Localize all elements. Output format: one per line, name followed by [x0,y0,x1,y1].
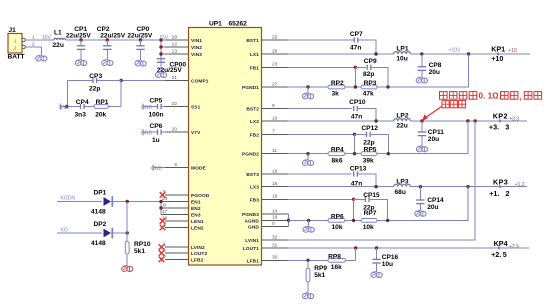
svg-text:CP12: CP12 [361,125,378,132]
svg-text:+3.: +3. [489,122,499,131]
inductor LP3 [394,184,411,186]
svg-text:EN3: EN3 [191,213,201,219]
wire CP3 loop [68,81,94,107]
svg-text:+10: +10 [508,48,517,54]
inductor L1 [54,38,66,40]
svg-text:AGND: AGND [244,218,259,224]
junction [374,52,377,55]
capacitor CP8 [421,54,423,67]
svg-text:0. 1: 0. 1 [479,91,493,100]
no-connect X LEN1 [160,218,166,224]
wire diode node vertical [126,202,128,242]
svg-text:21: 21 [172,75,178,81]
svg-text:31: 31 [272,242,278,248]
wire +10 rail [410,53,530,55]
junction [354,246,357,249]
wire FB1 return [388,54,469,87]
capacitor CP16 [376,248,378,259]
no-connect X LFB2 [159,257,165,263]
svg-text:22u: 22u [53,42,64,49]
junction [307,219,310,222]
svg-text:8: 8 [163,202,166,208]
junction [287,219,290,222]
svg-text:LEN2: LEN2 [191,226,204,232]
capacitor CP10 [353,106,355,111]
svg-text:16k: 16k [331,264,342,271]
svg-text:DP2: DP2 [94,221,107,228]
wire PGND3 row [289,219,329,221]
svg-text:5k1: 5k1 [134,248,145,255]
wire CP13 to LX3 node [357,174,376,187]
svg-text:22: 22 [172,101,178,107]
svg-text:FB2: FB2 [250,132,260,138]
svg-text:10u: 10u [382,261,393,268]
svg-text:22u/25V: 22u/25V [100,33,126,40]
junction [420,119,423,122]
junction [159,52,162,55]
svg-text:RP3: RP3 [364,80,377,87]
svg-text:19: 19 [272,215,278,221]
ground at CP11 [416,147,421,152]
svg-text:CP6: CP6 [150,123,163,130]
capacitor CP15 [354,198,366,200]
ground at CP1 [75,61,80,66]
IC UP1 65262 body [189,28,262,266]
svg-text:47k: 47k [363,91,374,98]
wire LFB1 row [288,259,329,261]
svg-text:12: 12 [172,41,178,47]
wire EN vertical [160,202,162,215]
svg-text:+1.2: +1.2 [515,182,525,188]
capacitor CP00 [157,58,165,60]
no-connect X LEN2 [160,225,166,231]
svg-text:3k: 3k [332,91,340,98]
svg-text:47n: 47n [351,113,362,120]
wire BST1 to CP7 [288,39,355,41]
wire [153,167,165,169]
svg-text:20u: 20u [429,69,440,76]
svg-text:1u: 1u [152,137,160,144]
junction [352,219,355,222]
svg-text:+10: +10 [491,54,503,63]
svg-text:39k: 39k [363,157,374,164]
svg-text:11: 11 [272,148,277,154]
svg-text:LP1: LP1 [396,46,408,53]
svg-text:15V: 15V [42,35,52,41]
wire L1 to VIN1 [66,39,166,41]
IC left pin stubs with pin numbers [165,39,189,41]
svg-text:FB1: FB1 [250,65,260,71]
svg-text:EN1: EN1 [191,200,201,206]
svg-text:20k: 20k [95,112,106,119]
capacitor CP3 [92,78,94,83]
ground at RP9 [302,294,307,299]
wire J1 pin2 down to ground [25,47,41,55]
junction [474,119,477,122]
svg-text:27: 27 [272,81,278,87]
svg-text:23: 23 [272,62,278,68]
svg-text:COMP1: COMP1 [191,79,209,85]
svg-text:UP1: UP1 [209,21,222,28]
svg-text:68u: 68u [395,189,406,196]
wire LVIN1 from +3.3 [288,121,476,240]
svg-text:LFB1: LFB1 [247,258,260,264]
ground at CP14 [415,211,420,216]
wire KGDN to DP1 [57,201,102,203]
svg-text:22u/25V: 22u/25V [66,33,92,40]
svg-text:DP1: DP1 [94,189,107,196]
svg-text:GND: GND [248,225,259,231]
svg-text:RP1: RP1 [96,99,109,106]
svg-text:PGND1: PGND1 [242,85,259,91]
ground at CP16 [371,273,376,278]
svg-text:KP2: KP2 [493,112,508,121]
junction [419,185,422,188]
connector J1 (BATT) [8,34,22,54]
svg-text:15: 15 [272,181,278,187]
svg-text:CP11: CP11 [428,129,444,136]
IC right pin stubs with pin numbers [262,39,288,41]
svg-text:CP9: CP9 [364,58,377,65]
svg-text:+2.5: +2.5 [509,244,519,250]
junction [374,119,377,122]
ground at CP00 [155,73,160,78]
capacitor CP5 [157,104,159,109]
svg-text:RP5: RP5 [364,147,377,154]
svg-text:RP4: RP4 [331,147,344,154]
svg-text:26: 26 [272,48,278,54]
svg-text:LP3: LP3 [396,178,408,185]
svg-text:PGND3: PGND3 [242,212,259,218]
svg-text:V7V: V7V [191,130,201,136]
svg-text:4148: 4148 [91,240,106,247]
capacitor CP4 [80,104,82,109]
svg-text:CP15: CP15 [363,192,380,199]
wire CP7 to LX1 node [358,40,376,54]
junction [106,38,109,41]
junction [387,152,390,155]
svg-text:0: 0 [272,221,275,227]
junction [159,38,162,41]
capacitor CP9 [355,66,366,68]
junction [306,85,309,88]
junction [159,45,162,48]
inductor LP1 [394,52,411,54]
svg-text:Ω: Ω [492,91,498,100]
junction [126,200,129,203]
svg-text:3n3: 3n3 [75,112,87,119]
svg-text:32: 32 [272,234,278,240]
svg-text:RP10: RP10 [134,241,151,248]
resistor RP8 [328,258,345,262]
svg-text:KP4: KP4 [494,239,508,248]
svg-text:28: 28 [172,34,178,40]
svg-text:CP3: CP3 [89,73,102,80]
wire FB2 return [388,121,468,154]
svg-text:BST1: BST1 [246,38,259,44]
svg-text:PGND2: PGND2 [242,152,259,158]
svg-text:10k: 10k [363,224,374,231]
svg-text:SS1: SS1 [191,105,201,111]
svg-text:22p: 22p [89,86,100,93]
svg-text:VIN1: VIN1 [191,38,202,44]
svg-text:25: 25 [272,34,278,40]
svg-text:VIN3: VIN3 [191,52,202,58]
svg-text:L1: L1 [54,30,62,37]
ground at PGND1 [307,87,309,93]
svg-text:14: 14 [272,208,278,214]
capacitor CP7 [353,37,355,42]
ground at J1 pin2 [36,56,41,61]
resistor RP2 [328,85,345,89]
svg-text:16: 16 [272,168,278,174]
ground at RP10 [122,267,127,272]
svg-text:20u: 20u [428,136,439,143]
svg-text:CP14: CP14 [427,197,444,204]
svg-text:LOUT2: LOUT2 [191,251,207,257]
wire LX1 to LP1 [288,53,394,55]
junction [65,105,68,108]
wire DP1 to EN pins [110,201,161,203]
svg-text:17: 17 [162,209,168,215]
svg-text:3: 3 [505,122,509,131]
svg-text:LX2: LX2 [250,119,259,125]
wire +3.3 rail [410,120,527,122]
svg-text:7: 7 [272,129,275,135]
wire +1.2 rail [410,186,527,188]
wire [143,131,158,133]
ground at CP8 [416,78,421,83]
wire BST3 to CP13 [288,173,352,175]
capacitor CP6 [157,130,159,135]
wire [143,106,158,108]
svg-text:13: 13 [172,48,178,54]
svg-text:+1.: +1. [489,189,499,198]
diode DP1 (4148) [104,197,112,206]
wire PGND2 row [288,153,329,155]
wire LX2 to LP2 [288,120,394,122]
wire KG to DP2 [57,232,102,234]
svg-text:20u: 20u [427,204,438,211]
junction [159,206,162,209]
svg-text:30: 30 [272,255,278,261]
junction [79,38,82,41]
svg-text:5: 5 [503,250,507,259]
junction [354,85,357,88]
svg-text:FB3: FB3 [250,197,260,203]
junction [139,38,142,41]
capacitor CP13 [353,171,355,176]
svg-text:BST3: BST3 [246,172,259,178]
resistor RP9 [307,260,309,268]
svg-text:10u: 10u [396,55,407,62]
wire FB3 return [388,187,468,221]
svg-text:J1: J1 [9,27,17,34]
svg-text:22p: 22p [363,139,374,146]
ground at CP2 [102,61,107,66]
svg-text:LP2: LP2 [396,113,408,120]
no-connect X PGOOD [160,192,166,198]
svg-text:47n: 47n [350,44,361,51]
svg-text:,: , [520,92,522,102]
svg-text:RP6: RP6 [331,213,344,220]
wire VIN rail branch to VIN2 VIN3 [160,40,162,62]
wire DP2 node [110,232,127,234]
capacitor CP14 [419,187,421,200]
wire AGND bracket [288,214,290,227]
junction [306,259,309,262]
junction [353,133,356,136]
capacitor CP12 [355,133,367,135]
svg-text:LFB2: LFB2 [191,257,204,263]
svg-text:CP4: CP4 [76,99,89,106]
svg-text:100n: 100n [149,111,164,118]
svg-text:9: 9 [272,103,275,109]
resistor RP5 [361,152,377,156]
svg-text:+10V: +10V [449,48,461,54]
resistor RP6 [328,219,345,223]
resistor RP7 [361,219,377,223]
svg-text:LEN1: LEN1 [191,219,204,225]
svg-text:82p: 82p [363,71,374,78]
resistor RP1 [94,105,108,109]
svg-text:EN2: EN2 [191,206,201,212]
svg-text:65262: 65262 [229,21,248,28]
svg-text:BST2: BST2 [246,107,259,113]
svg-text:CP16: CP16 [382,254,399,261]
svg-text:KP3: KP3 [493,177,508,186]
svg-text:18: 18 [272,194,278,200]
svg-text:+3.3: +3.3 [509,116,519,122]
wire BST2 to CP10 [288,108,352,110]
svg-text:CP8: CP8 [429,62,442,69]
junction [159,200,162,203]
junction [467,52,470,55]
svg-text:LX1: LX1 [250,52,259,58]
junction [420,52,423,55]
capacitor CP2 [106,40,108,46]
no-connect X LVIN2 [159,244,165,250]
svg-text:VIN2: VIN2 [191,45,202,51]
svg-text:RP7: RP7 [364,210,377,217]
wire FB3 to divider [288,198,354,200]
svg-text:CP10: CP10 [349,99,366,106]
annotation text (red) [440,92,448,100]
capacitor CP0 [140,40,142,46]
svg-text:LX3: LX3 [250,185,259,191]
svg-text:22u: 22u [396,122,407,129]
svg-text:CP7: CP7 [350,31,363,38]
svg-text:10k: 10k [332,224,343,231]
svg-text:LVIN1: LVIN1 [245,238,259,244]
junction [354,66,357,69]
capacitor CP1 [80,40,82,46]
junction [466,185,469,188]
capacitor CP11 [421,121,423,132]
no-connect X LOUT2 [159,250,165,256]
junction [466,119,469,122]
svg-text:8k6: 8k6 [332,157,343,164]
junction [353,152,356,155]
svg-text:+2.: +2. [491,250,501,259]
svg-text:4148: 4148 [91,209,106,216]
wire FB2 to divider [288,133,355,135]
svg-text:6: 6 [174,162,177,168]
svg-text:RP2: RP2 [331,80,344,87]
junction [306,152,309,155]
junction [374,185,377,188]
svg-text:RP8: RP8 [328,253,341,260]
svg-text:22u/25V: 22u/25V [127,33,153,40]
svg-text:20: 20 [172,127,178,133]
junction [119,79,122,82]
wire LX3 to LP3 [288,186,394,188]
wire PGND1 row [288,86,329,88]
svg-text:CP13: CP13 [350,165,367,172]
wire COMP1 row [121,80,165,82]
wire J1 pin1 to L1 [25,39,54,41]
wire CP10 to LX2 node [357,109,376,122]
svg-text:BATT: BATT [8,53,25,60]
ground at PGND2 [307,154,309,160]
svg-text:KGDN: KGDN [61,196,76,202]
wire FB1 to divider [288,66,356,68]
svg-text:MODE: MODE [191,166,206,172]
svg-text:CP5: CP5 [150,97,163,104]
junction [386,219,389,222]
inductor LP2 [394,119,411,121]
ground at PGND3 [308,220,310,226]
svg-text:5k1: 5k1 [314,272,325,279]
wire LOUT1 +2.5 rail [288,247,530,249]
svg-text:10: 10 [272,115,278,121]
resistor RP3 [361,85,377,89]
diode DP2 (4148) [104,229,112,238]
junction [126,231,129,234]
svg-text:PGOOD: PGOOD [191,193,210,199]
ground at CP0 [135,61,140,66]
junction [375,246,378,249]
svg-text:LVIN2: LVIN2 [191,245,205,251]
junction [386,85,389,88]
svg-text:2: 2 [506,189,510,198]
resistor RP10 [125,241,129,254]
resistor RP4 [328,152,345,156]
junction [352,198,355,201]
annotation arrow (red) [425,107,442,119]
svg-text:22u/25V: 22u/25V [157,67,183,74]
svg-text:LOUT1: LOUT1 [243,246,259,252]
